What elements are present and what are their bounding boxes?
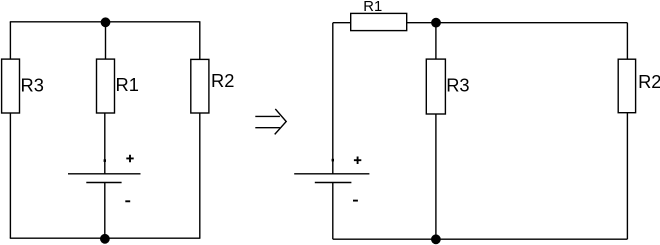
resistor R3 (right circuit) — [426, 59, 445, 114]
wire: battery negative to bottom rail (right circuit) — [332, 183, 334, 240]
resistor R1 (left circuit) — [97, 59, 115, 113]
implication arrow: chevron head — [275, 109, 287, 134]
junction dot: right circuit top node — [431, 18, 441, 28]
wire: R3 branch lower (left circuit) — [9, 113, 11, 238]
battery B2 terminal nub (right circuit) — [332, 159, 334, 162]
battery B2 positive plate (right circuit) — [294, 173, 369, 175]
junction dot: left circuit bottom node — [100, 234, 110, 244]
svg-text:R2: R2 — [638, 71, 660, 92]
wire: R2 branch upper (left circuit) — [199, 22, 201, 60]
wire: R2 branch lower (right circuit) — [626, 113, 628, 240]
label: battery B1 minus sign — [125, 200, 130, 202]
svg-text:R1: R1 — [363, 0, 382, 15]
battery B1 terminal nub (left circuit) — [104, 159, 106, 162]
wire: right circuit bottom rail — [333, 238, 628, 240]
label: battery B2 plus sign — [354, 157, 361, 165]
implication arrow: bottom bar — [255, 127, 280, 129]
wire: R1 to top node (right circuit) — [407, 22, 628, 24]
svg-text:R3: R3 — [21, 75, 44, 96]
wire: R2 branch lower (left circuit) — [199, 113, 201, 238]
resistor R3 (left circuit) — [2, 59, 20, 113]
wire: R2 branch upper (right circuit) — [626, 23, 628, 60]
svg-text:R1: R1 — [116, 74, 139, 95]
wire: battery negative to bottom rail (left circuit) — [104, 183, 106, 239]
wire: top node to R3 (right circuit) — [435, 23, 437, 59]
wire: R1 to battery positive plate (left circuit) — [104, 113, 106, 174]
wire: R3 branch lower (right circuit) — [435, 114, 437, 239]
battery B2 negative plate (right circuit) — [315, 182, 352, 184]
wire: R3 branch upper (left circuit) — [9, 22, 11, 59]
wire: battery branch upper (right circuit) — [332, 23, 334, 174]
resistor R2 (left circuit) — [191, 59, 209, 113]
wire: left circuit top rail (node A) — [10, 21, 201, 23]
junction dot: left circuit top node — [101, 17, 111, 27]
resistor R2 (right circuit) — [618, 59, 635, 112]
junction dot: right circuit bottom node — [431, 234, 441, 244]
label: battery B1 plus sign — [126, 155, 133, 163]
wire: right circuit top-left segment to R1 — [333, 22, 351, 24]
battery B1 negative plate (left circuit) — [86, 182, 121, 184]
battery B1 positive plate (left circuit) — [68, 173, 141, 175]
wire: top node to R1 (left circuit) — [105, 22, 107, 59]
svg-text:R2: R2 — [211, 70, 234, 91]
resistor R1 (right circuit, horizontal) — [351, 13, 407, 30]
svg-text:R3: R3 — [446, 74, 469, 95]
implication arrow: top bar — [255, 115, 280, 117]
label: battery B2 minus sign — [353, 200, 358, 202]
wire: left circuit bottom rail (node B) — [10, 237, 201, 239]
